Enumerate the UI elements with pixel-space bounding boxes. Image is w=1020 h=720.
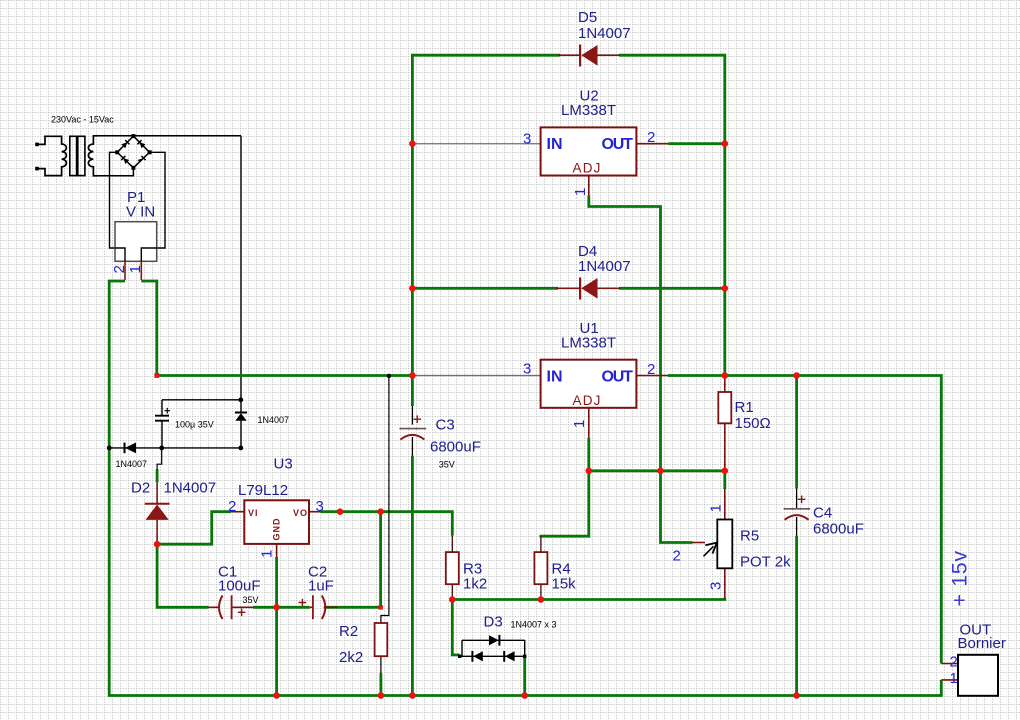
junction dot ground rail D3 bbox=[521, 692, 528, 699]
diode D3c upper pointing right bbox=[489, 635, 499, 646]
svg-text:C4: C4 bbox=[813, 505, 832, 522]
svg-text:3: 3 bbox=[708, 582, 725, 590]
svg-text:D2: D2 bbox=[131, 480, 150, 497]
junction dot VO rail a bbox=[337, 508, 344, 515]
wire bridge right node to P1 pin 1 bbox=[141, 152, 165, 261]
svg-text:1N4007 x 3: 1N4007 x 3 bbox=[511, 620, 557, 630]
capacitor C3 straight plate bbox=[399, 428, 426, 430]
svg-text:2: 2 bbox=[111, 265, 128, 273]
svg-text:1N4007: 1N4007 bbox=[578, 258, 631, 275]
potentiometer R5 wiper arrow bbox=[704, 543, 717, 557]
bridge node square left bbox=[115, 150, 119, 154]
wire D2 anode node to U3 VI bbox=[157, 512, 231, 545]
svg-text:1N4007: 1N4007 bbox=[258, 415, 290, 425]
resistor R3 top lead bbox=[451, 536, 453, 553]
svg-text:D3: D3 bbox=[484, 614, 503, 631]
capacitor C4 leads black bbox=[796, 488, 798, 536]
wire U2 OUT to vertical rail bbox=[668, 142, 725, 145]
svg-text:R1: R1 bbox=[735, 399, 754, 416]
wire black jog down to D2 bbox=[157, 448, 162, 470]
transformer TR1 primary winding bbox=[37, 136, 66, 175]
svg-text:3: 3 bbox=[523, 131, 531, 148]
resistor R4 body bbox=[534, 552, 547, 584]
svg-text:L79L12: L79L12 bbox=[238, 482, 288, 499]
wire R4 bottom stub bbox=[540, 585, 542, 600]
wire P1 legs overlay on body bbox=[115, 248, 157, 261]
pin lead R5 pin1 bbox=[724, 489, 726, 520]
junction dot C4 top OUT rail bbox=[793, 372, 800, 379]
capacitor C4 straight plate bbox=[784, 508, 811, 510]
diode D3b lower-right pointing left bbox=[504, 651, 514, 662]
resistor R1 body bbox=[718, 392, 731, 423]
svg-text:POT 2k: POT 2k bbox=[740, 554, 791, 571]
wire U3 GND down to ground rail bbox=[275, 557, 278, 696]
pin lead D5 right bbox=[597, 54, 620, 56]
capacitor C1 plus bbox=[238, 609, 246, 617]
svg-text:15k: 15k bbox=[552, 576, 577, 593]
wire D3 right leg to ground rail bbox=[523, 656, 526, 695]
svg-text:150Ω: 150Ω bbox=[735, 415, 771, 432]
svg-text:35V: 35V bbox=[243, 595, 259, 605]
diode D2 1N4007 dark red bbox=[145, 504, 170, 520]
svg-text:1uF: 1uF bbox=[308, 578, 334, 595]
wire R3 bottom stub bbox=[451, 585, 453, 600]
svg-text:OUT: OUT bbox=[602, 136, 634, 153]
wire D5 right to OUT vertical rail bbox=[619, 55, 725, 375]
pin lead R1 bottom bbox=[724, 423, 726, 471]
bridge diode arrow top-right bbox=[137, 140, 145, 148]
junction black dot cap bottom bbox=[159, 446, 164, 451]
wire rail under R3 R4 to R5 pin3 bbox=[452, 598, 725, 600]
pin lead U3 VI bbox=[231, 511, 244, 513]
svg-text:IN: IN bbox=[547, 136, 563, 153]
svg-text:VO: VO bbox=[293, 508, 308, 518]
wire R5 wiper from ADJ rail bbox=[661, 471, 693, 543]
capacitor C3 curved plate bbox=[400, 435, 424, 440]
junction dot C1 rail GND bbox=[273, 604, 280, 611]
resistor R3 body bbox=[446, 552, 459, 584]
svg-text:LM338T: LM338T bbox=[561, 102, 616, 119]
capacitor C4 curved plate bbox=[785, 515, 809, 520]
wire C1 to C1-rail middle bbox=[253, 606, 310, 609]
wire U1 OUT rail to +15v line down to Bornier pin 2 bbox=[668, 376, 941, 664]
capacitor 100u leads bbox=[161, 400, 163, 448]
svg-text:6800uF: 6800uF bbox=[813, 521, 864, 538]
diode D5 1N4007 bbox=[580, 45, 597, 67]
capacitor C1 straight plate bbox=[231, 595, 233, 619]
potentiometer R5 body bbox=[717, 520, 732, 569]
svg-text:ADJ: ADJ bbox=[573, 393, 602, 408]
op-amp regulator U2 LM338T box bbox=[541, 127, 637, 175]
capacitor C2 plus bbox=[299, 599, 307, 607]
capacitor C1 curved plate bbox=[219, 596, 223, 620]
connector P1 pin stub 1 bbox=[140, 261, 142, 280]
pin lead U1 OUT bbox=[636, 375, 668, 377]
pin lead Bornier pin2 bbox=[941, 663, 958, 665]
pin lead Bornier pin1 bbox=[941, 679, 958, 681]
wire C3 bottom to ground rail bbox=[411, 456, 414, 696]
junction black dot diode top bbox=[238, 397, 243, 402]
svg-text:100µ 35V: 100µ 35V bbox=[175, 420, 214, 430]
junction dot ADJ rail left bbox=[586, 468, 593, 475]
svg-text:LM338T: LM338T bbox=[561, 335, 616, 352]
junction dot R3 bottom bbox=[449, 596, 456, 603]
bridge diode arrow bottom-right bbox=[138, 156, 146, 162]
bridge node square right bbox=[148, 150, 152, 154]
wire D3 left leg bbox=[452, 600, 459, 655]
capacitor C2 curved plate bbox=[322, 596, 326, 620]
svg-text:1N4007: 1N4007 bbox=[116, 459, 148, 469]
transformer TR1 core bar 1 bbox=[70, 136, 77, 175]
wire U3 VO rail to R3 top bbox=[320, 512, 452, 536]
pin lead D2 top bbox=[156, 482, 158, 503]
svg-text:1: 1 bbox=[259, 550, 276, 558]
svg-text:Bornier: Bornier bbox=[958, 635, 1006, 652]
junction dot ground rail U3 bbox=[273, 692, 280, 699]
junction dot R4 bottom bbox=[538, 596, 545, 603]
bridge node square top bbox=[131, 134, 135, 138]
junction dot C3 top IN rail bbox=[409, 372, 416, 379]
wire U1 IN thin bbox=[412, 375, 540, 377]
pin lead U3 GND bbox=[276, 544, 278, 557]
capacitor 100u plates bbox=[155, 416, 169, 421]
svg-text:3: 3 bbox=[523, 361, 531, 378]
svg-text:1k2: 1k2 bbox=[463, 576, 487, 593]
wire AC top: secondary top to bridge top node and loop corner bbox=[96, 135, 241, 137]
svg-text:D5: D5 bbox=[578, 9, 597, 26]
pin lead R1 top bbox=[724, 377, 726, 392]
wire black R2 bottom stub bbox=[380, 656, 382, 674]
connector P1 body bbox=[115, 222, 157, 262]
wire AC bottom: secondary bottom to bridge bottom node bbox=[96, 168, 133, 176]
diode network D3 frame bbox=[460, 640, 525, 656]
svg-text:R2: R2 bbox=[339, 623, 358, 640]
wire bridge left node to P1 pin 2 bbox=[110, 152, 126, 261]
svg-text:ADJ: ADJ bbox=[573, 161, 602, 176]
wire D4 left bbox=[412, 287, 558, 290]
wire C4 branch top bbox=[795, 376, 798, 489]
wire ADJ rail horizontal bbox=[589, 469, 725, 472]
svg-text:+ 15v: + 15v bbox=[948, 550, 972, 606]
wire C2 right to corner up to VO rail bbox=[325, 512, 381, 608]
capacitor 100u plus sign bbox=[165, 408, 171, 414]
connector P1 pin stub 2 bbox=[124, 261, 126, 280]
bridge diode arrow bottom-left bbox=[121, 156, 129, 164]
junction dot ground rail R2 bbox=[378, 692, 385, 699]
wire U2 IN thin bbox=[412, 143, 540, 145]
svg-text:1: 1 bbox=[127, 265, 144, 273]
junction dot D4 left bbox=[409, 285, 416, 292]
pin lead R5 wiper horizontal bbox=[693, 542, 706, 544]
diode D3a lower-left pointing left bbox=[472, 651, 482, 662]
svg-text:3: 3 bbox=[316, 498, 324, 515]
connector OUT Bornier box bbox=[958, 655, 998, 696]
wire D2 node down to C1 rail bbox=[157, 544, 208, 607]
junction dot R1 top OUT rail bbox=[722, 372, 729, 379]
svg-text:6800uF: 6800uF bbox=[430, 439, 481, 456]
capacitor C2 straight plate bbox=[312, 595, 314, 619]
diode D4 1N4007 bbox=[580, 278, 597, 300]
pin lead C1 right bbox=[232, 606, 253, 608]
wire D4 right bbox=[619, 287, 725, 290]
svg-text:1: 1 bbox=[708, 504, 725, 512]
pin lead C1 left bbox=[209, 606, 220, 608]
junction dot ground rail C4 bbox=[793, 692, 800, 699]
bridge node square bottom bbox=[131, 166, 135, 170]
svg-text:VI: VI bbox=[248, 508, 259, 518]
svg-text:100uF: 100uF bbox=[218, 578, 261, 595]
pin lead U1 ADJ bbox=[588, 408, 590, 438]
junction dot D4 right bbox=[722, 285, 729, 292]
svg-text:2: 2 bbox=[647, 129, 655, 146]
transformer TR1 primary terminal 1 bbox=[35, 143, 39, 147]
wire U1 ADJ down bbox=[541, 438, 589, 538]
junction dot ADJ rail middle bbox=[657, 468, 664, 475]
diode network D3 terminal squares bbox=[458, 655, 461, 658]
transformer TR1 secondary winding bbox=[88, 136, 98, 176]
pin lead U2 ADJ bbox=[588, 176, 590, 196]
pin lead C2 right bbox=[324, 606, 338, 608]
svg-text:R5: R5 bbox=[740, 528, 759, 545]
pin lead U2 OUT bbox=[636, 143, 668, 145]
svg-text:2: 2 bbox=[647, 361, 655, 378]
pin lead D4 left bbox=[556, 287, 579, 289]
wire R5 pin1 upper bbox=[723, 471, 726, 489]
resistor R2 body bbox=[375, 623, 388, 656]
pin lead C2 left bbox=[310, 606, 313, 608]
regulator U3 L79L12 box bbox=[244, 500, 309, 544]
transformer TR1 core bar 2 bbox=[78, 136, 85, 175]
junction black dot R2 top on IN rail bbox=[387, 374, 391, 378]
svg-text:2k2: 2k2 bbox=[339, 649, 363, 666]
pin lead D5 left bbox=[558, 54, 579, 56]
transformer TR1 primary terminal 2 bbox=[35, 167, 39, 171]
capacitor C3 plus bbox=[413, 415, 421, 423]
pin lead U3 VO bbox=[309, 511, 320, 513]
wire D2 cathode short bbox=[156, 469, 159, 482]
wire P1 pin1 to main IN rail bbox=[141, 281, 412, 376]
svg-text:35V: 35V bbox=[439, 460, 455, 470]
bridge rectifier B1 diamond edges bbox=[117, 136, 149, 168]
svg-text:U3: U3 bbox=[274, 456, 293, 473]
svg-text:1N4007: 1N4007 bbox=[164, 480, 217, 497]
wire C3 branch top bbox=[411, 376, 414, 407]
op-amp regulator U1 LM338T box bbox=[541, 360, 637, 408]
wire R2 bottom to ground rail bbox=[379, 674, 382, 696]
wire U2 ADJ down to ADJ rail bbox=[589, 196, 661, 472]
svg-text:1: 1 bbox=[950, 670, 958, 687]
svg-text:OUT: OUT bbox=[602, 369, 634, 386]
diode 1N4007 horizontal black pointing left bbox=[125, 443, 137, 454]
junction dot VO rail b bbox=[377, 508, 384, 515]
resistor R4 top lead bbox=[540, 536, 542, 552]
junction dot ADJ rail right R5 bbox=[722, 468, 729, 475]
svg-text:1: 1 bbox=[572, 188, 589, 196]
wire loop from bridge top node down right of P1 bbox=[240, 136, 242, 400]
pin lead R5 pin3 bbox=[724, 569, 726, 599]
diode 1N4007 vertical black bbox=[235, 400, 247, 448]
svg-text:2: 2 bbox=[673, 548, 681, 565]
junction dot U2 IN rail left bbox=[409, 140, 416, 147]
svg-text:C3: C3 bbox=[436, 417, 455, 434]
junction square C2 R2 corner bbox=[378, 605, 383, 610]
junction dot U2 OUT rail right bbox=[722, 140, 729, 147]
svg-text:1N4007: 1N4007 bbox=[578, 25, 631, 42]
pin lead D4 right bbox=[597, 287, 620, 289]
capacitor C4 plus bbox=[798, 496, 806, 504]
svg-text:GND: GND bbox=[272, 518, 282, 541]
pin lead D2 bottom bbox=[156, 520, 158, 545]
svg-text:2: 2 bbox=[228, 498, 236, 515]
svg-text:V IN: V IN bbox=[126, 204, 155, 221]
junction dot ground rail C3 bbox=[409, 692, 416, 699]
capacitor 100u top wire bbox=[162, 399, 241, 401]
wire node IN-rail to D5 left bbox=[412, 55, 560, 375]
wire black bottom of cap section bbox=[109, 447, 241, 449]
wire P1 pin2 to left rail and bottom ground rail up to Bornier pin 1 bbox=[109, 281, 941, 696]
junction dot D2 anode node bbox=[154, 541, 161, 548]
svg-text:230Vac - 15Vac: 230Vac - 15Vac bbox=[51, 115, 114, 125]
svg-text:IN: IN bbox=[547, 369, 563, 386]
junction black dot on green rail bbox=[107, 446, 112, 451]
svg-text:1: 1 bbox=[571, 420, 588, 428]
bridge diode arrow top-left bbox=[121, 140, 129, 148]
wire C4 bottom to ground rail bbox=[795, 536, 798, 696]
junction black dot diode bottom bbox=[238, 446, 243, 451]
svg-text:2: 2 bbox=[950, 654, 958, 671]
junction square P1 corner bbox=[154, 373, 159, 378]
wire black thin from IN rail down to R2 bbox=[381, 376, 389, 623]
capacitor C3 leads black bbox=[411, 406, 413, 456]
